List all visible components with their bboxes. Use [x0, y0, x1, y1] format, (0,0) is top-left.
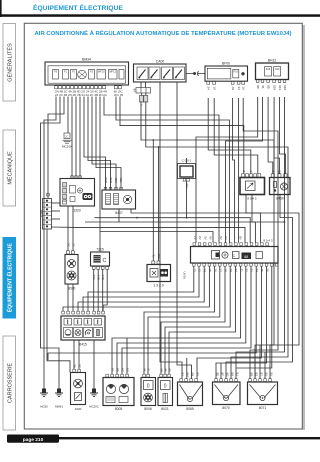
svg-text:14: 14	[203, 269, 207, 273]
svg-text:MÉCANIQUE: MÉCANIQUE	[6, 151, 13, 185]
svg-text:6415: 6415	[79, 343, 87, 347]
svg-text:8T: 8T	[259, 373, 263, 377]
svg-text:9V: 9V	[239, 236, 243, 240]
svg-text:1V: 1V	[193, 236, 197, 240]
svg-text:8021: 8021	[161, 407, 169, 411]
svg-text:8407: 8407	[115, 211, 123, 215]
svg-text:C 0 0 1: C 0 0 1	[182, 159, 192, 163]
svg-text:F40: F40	[275, 67, 280, 71]
svg-text:MF10: MF10	[98, 70, 105, 74]
svg-text:4V: 4V	[152, 254, 156, 258]
svg-text:3V: 3V	[203, 236, 207, 240]
svg-text:4CB: 4CB	[104, 177, 108, 183]
svg-text:528: 528	[272, 85, 276, 90]
svg-text:MC20C: MC20C	[89, 405, 98, 409]
svg-text:A: A	[140, 104, 144, 106]
svg-text:24: 24	[255, 269, 259, 273]
svg-text:12: 12	[193, 269, 197, 273]
svg-text:44B: 44B	[97, 275, 101, 280]
svg-text:ÉQUIPEMENT ÉLECTRIQUE: ÉQUIPEMENT ÉLECTRIQUE	[33, 3, 124, 12]
svg-text:C: C	[233, 253, 236, 258]
svg-text:4P: 4P	[167, 368, 171, 372]
svg-text:649: 649	[283, 85, 287, 90]
svg-text:8 0 4 3: 8 0 4 3	[263, 239, 273, 243]
svg-text:643: 643	[278, 85, 282, 90]
svg-text:8N: 8N	[190, 373, 194, 377]
svg-text:BB24: BB24	[39, 210, 43, 218]
svg-text:21: 21	[239, 269, 243, 273]
svg-text:16: 16	[213, 269, 217, 273]
svg-text:8F: 8F	[220, 373, 224, 377]
svg-text:26: 26	[265, 269, 269, 273]
svg-text:AIR CONDITIONNÉ À RÉGULATION A: AIR CONDITIONNÉ À RÉGULATION AUTOMATIQUE…	[35, 29, 292, 37]
svg-text:B 2C: B 2C	[114, 90, 123, 94]
svg-text:BM34: BM34	[82, 57, 91, 61]
svg-text:4CL: 4CL	[119, 177, 123, 183]
svg-text:8V: 8V	[269, 373, 273, 377]
svg-text:22: 22	[245, 269, 249, 273]
svg-text:MM61: MM61	[55, 405, 63, 409]
svg-text:4L: 4L	[146, 368, 150, 372]
svg-text:ÉQUIPEMENT ÉLECTRIQUE: ÉQUIPEMENT ÉLECTRIQUE	[6, 243, 14, 313]
svg-text:8071: 8071	[259, 406, 267, 410]
svg-text:15: 15	[208, 269, 212, 273]
svg-text:8H: 8H	[230, 373, 234, 377]
svg-text:8A: 8A	[110, 368, 114, 372]
svg-text:1320: 1320	[73, 209, 81, 213]
svg-text:C: C	[103, 258, 107, 264]
svg-text:2C: 2C	[65, 135, 68, 139]
svg-text:8005: 8005	[115, 407, 123, 411]
svg-text:9A: 9A	[133, 89, 137, 93]
svg-text:A5: A5	[231, 87, 235, 91]
svg-text:24 2C 4B 2N 4D 2B 24 4A 2C 4B: 24 2C 4B 2N 4D 2B 24 4A 2C 4B 2N 2C	[55, 93, 107, 97]
svg-text:6B: 6B	[266, 85, 270, 89]
svg-text:4M: 4M	[159, 368, 163, 373]
svg-text:8070: 8070	[222, 406, 230, 410]
svg-text:8P: 8P	[195, 373, 199, 377]
svg-text:1620: 1620	[75, 407, 82, 411]
svg-text:F3: F3	[72, 70, 76, 74]
svg-text:CARROSSERIE: CARROSSERIE	[7, 363, 13, 403]
svg-text:MC60: MC60	[40, 405, 48, 409]
svg-text:2A: 2A	[71, 243, 75, 247]
svg-text:8M: 8M	[185, 373, 189, 378]
svg-text:8B: 8B	[115, 368, 119, 372]
svg-text:GÉNÉRALITÉS: GÉNÉRALITÉS	[6, 43, 13, 82]
svg-text:BF00: BF00	[222, 61, 230, 65]
svg-text:20: 20	[234, 269, 238, 273]
svg-text:page 210: page 210	[23, 437, 44, 443]
svg-text:F1: F1	[64, 70, 68, 74]
svg-text:8450: 8450	[276, 197, 284, 201]
svg-text:8G: 8G	[225, 373, 229, 378]
svg-text:F26: F26	[266, 67, 271, 71]
svg-text:2N 4B 2C 4A 2B 4D 2G 24 2N 4C: 2N 4B 2C 4A 2B 4D 2G 24 2N 4C 2B 4N	[55, 90, 107, 94]
svg-text:8U: 8U	[264, 373, 268, 377]
svg-text:MF12: MF12	[109, 70, 116, 74]
svg-text:4CH: 4CH	[114, 177, 118, 183]
svg-text:46: 46	[261, 85, 265, 89]
svg-text:10: 10	[213, 87, 217, 91]
svg-text:7V: 7V	[224, 236, 228, 240]
svg-text:0: 0	[147, 384, 150, 390]
svg-text:4N: 4N	[163, 368, 167, 372]
svg-text:19: 19	[229, 269, 233, 273]
svg-text:44C: 44C	[101, 275, 105, 281]
svg-text:18: 18	[224, 269, 228, 273]
svg-text:23: 23	[250, 269, 254, 273]
svg-text:8J: 8J	[235, 373, 239, 377]
svg-text:1 3 2 0: 1 3 2 0	[153, 284, 163, 288]
svg-text:8 0 4 5: 8 0 4 5	[247, 197, 257, 201]
svg-text:24: 24	[237, 87, 241, 91]
svg-text:8065: 8065	[186, 407, 194, 411]
svg-text:24: 24	[207, 87, 211, 91]
svg-text:7215: 7215	[96, 247, 104, 251]
svg-text:F16: F16	[234, 70, 239, 74]
svg-text:8S: 8S	[254, 373, 258, 377]
svg-text:2B: 2B	[72, 364, 76, 368]
svg-text:8E: 8E	[215, 373, 219, 377]
svg-text:2V: 2V	[198, 236, 202, 240]
svg-text:8Y: 8Y	[180, 373, 184, 377]
svg-text:UV36: UV36	[183, 272, 187, 280]
svg-text:9B: 9B	[256, 85, 260, 89]
svg-text:F2: F2	[90, 70, 94, 74]
svg-text:25: 25	[260, 269, 264, 273]
svg-text:13: 13	[198, 269, 202, 273]
svg-text:2C B: 2C B	[114, 93, 123, 97]
svg-text:0: 0	[164, 384, 167, 390]
svg-text:16: 16	[242, 87, 246, 91]
svg-text:F9: F9	[54, 70, 58, 74]
svg-text:4K: 4K	[142, 368, 146, 372]
svg-text:44A: 44A	[92, 275, 96, 280]
svg-text:8006: 8006	[144, 407, 152, 411]
svg-text:MC10A: MC10A	[62, 145, 72, 149]
svg-text:8020: 8020	[68, 287, 76, 291]
svg-text:17: 17	[219, 269, 223, 273]
svg-text:BH12: BH12	[268, 58, 277, 62]
svg-text:6V: 6V	[219, 236, 223, 240]
svg-text:4V: 4V	[209, 236, 213, 240]
svg-text:88: 88	[244, 255, 248, 259]
svg-text:CA00: CA00	[156, 59, 165, 63]
svg-text:4CD: 4CD	[109, 177, 113, 184]
svg-text:36V: 36V	[185, 183, 189, 188]
